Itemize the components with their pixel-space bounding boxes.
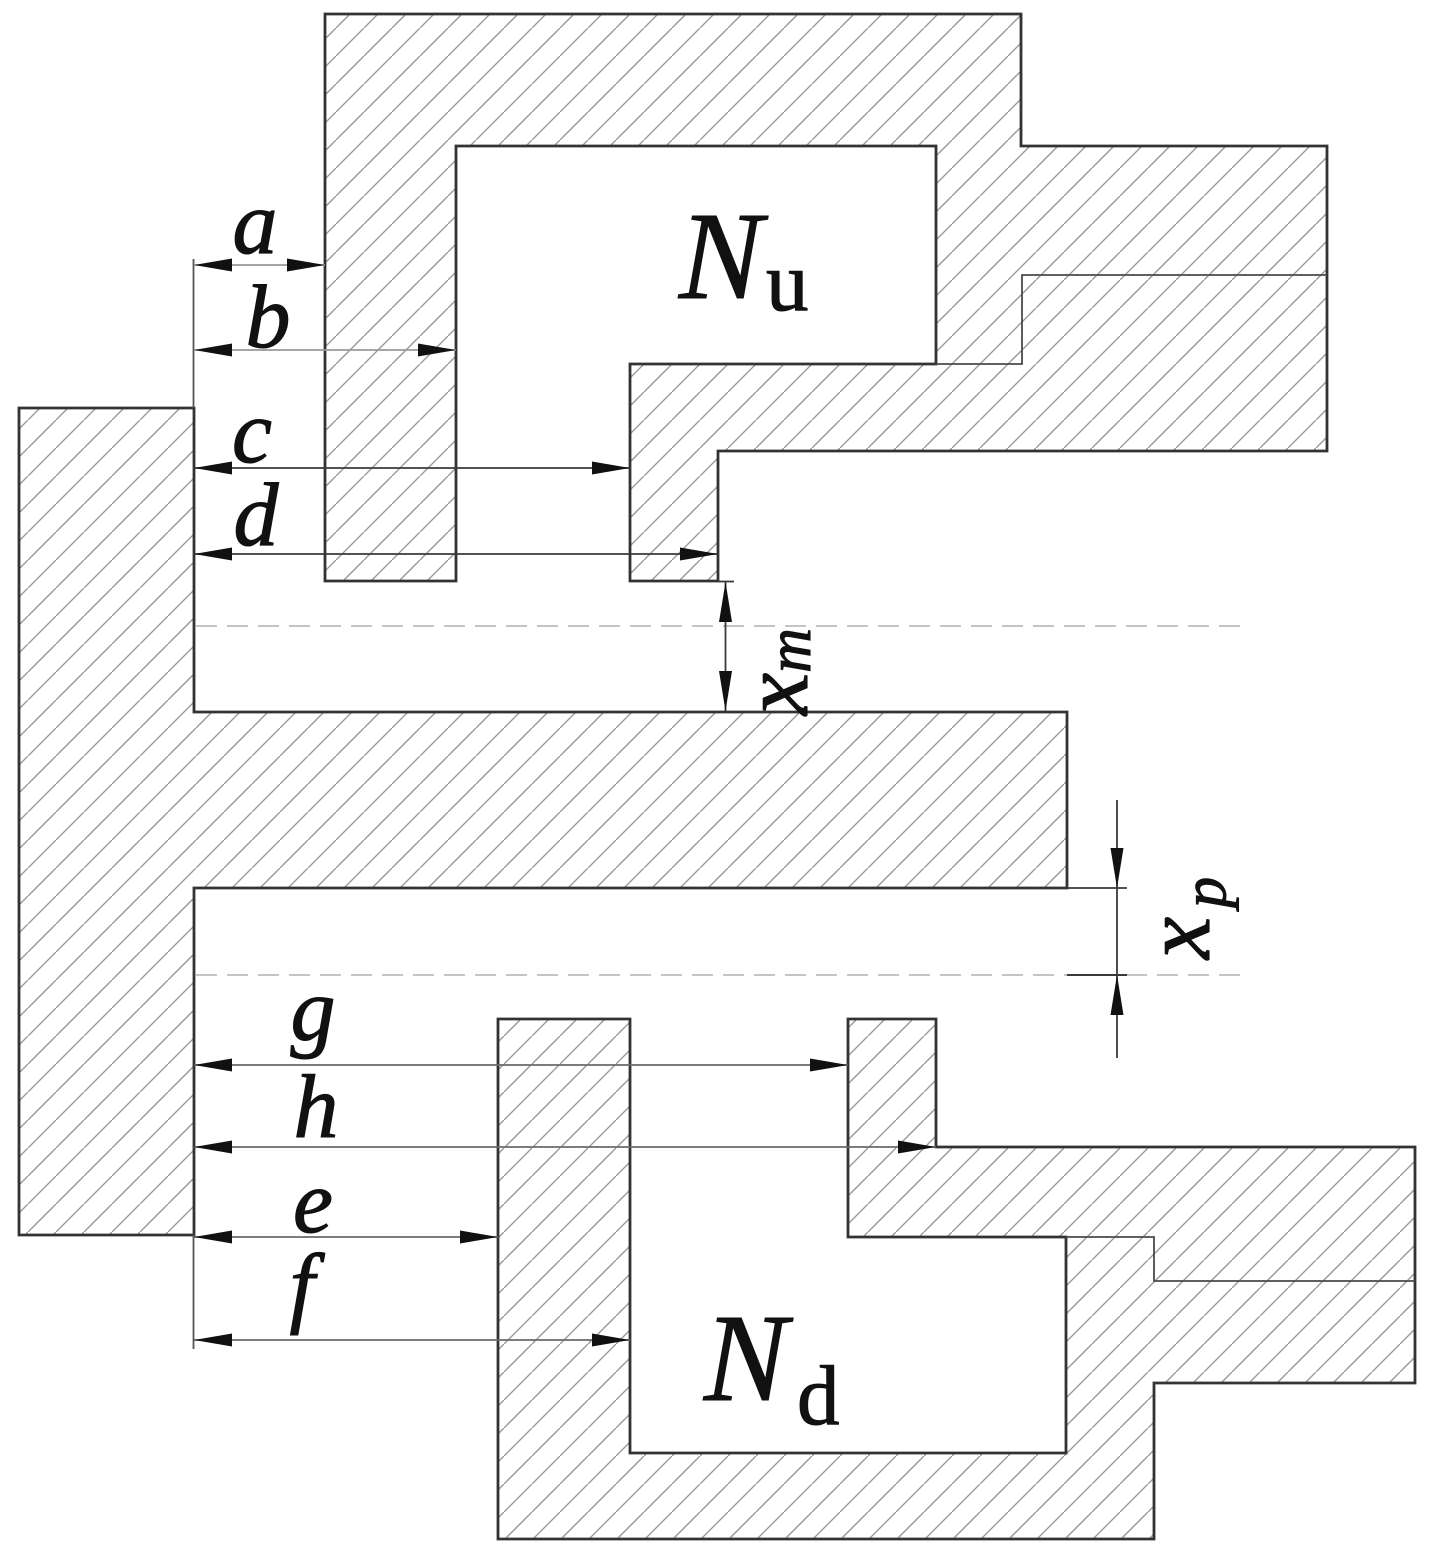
- label f: [289, 1237, 325, 1336]
- label d: [234, 466, 280, 565]
- dimension c: [194, 462, 630, 475]
- upper gear body (piece with Nu notch, union outline): [325, 14, 1327, 581]
- lower-left shaft piece (vertical bar + horizontal band): [19, 408, 1067, 1235]
- lower gear body (piece with Nd notch, union outline): [498, 1019, 1415, 1539]
- label a: [233, 174, 278, 273]
- dimension xp (vertical, band bottom to centerline): [1067, 800, 1127, 1058]
- dimension d: [194, 548, 718, 561]
- dimension a: [194, 259, 325, 272]
- svg-text:N: N: [703, 1290, 794, 1428]
- internal joint line upper (between gear and shaft flange): [936, 275, 1327, 364]
- label b: [246, 268, 291, 367]
- internal joint line lower (between gear and shaft flange): [1066, 1237, 1415, 1281]
- label xm (rotated): [722, 628, 828, 717]
- svg-text:a: a: [233, 174, 278, 273]
- dimension h: [194, 1141, 936, 1154]
- svg-text:u: u: [766, 235, 809, 329]
- label xp (rotated): [1124, 877, 1239, 961]
- label Nu (upper backlash): [678, 188, 809, 329]
- label h: [294, 1058, 339, 1157]
- label e: [293, 1153, 333, 1252]
- svg-text:d: d: [797, 1349, 840, 1443]
- label c: [232, 383, 272, 482]
- label g: [291, 961, 336, 1060]
- svg-text:b: b: [246, 268, 291, 367]
- svg-text:d: d: [234, 466, 280, 565]
- extension line lower-left: [193, 1235, 195, 1349]
- dimension b: [194, 344, 456, 357]
- dimension g: [194, 1059, 848, 1072]
- svg-text:h: h: [294, 1058, 339, 1157]
- dimension e: [194, 1231, 498, 1244]
- centerline lower (dashed axis): [196, 974, 1245, 976]
- dimension xm (vertical, tooth bottom to band top): [718, 582, 734, 712]
- label Nd (lower backlash): [703, 1290, 840, 1443]
- svg-text:N: N: [678, 188, 769, 326]
- extension line upper-left: [193, 259, 195, 408]
- dimension f: [194, 1334, 630, 1347]
- centerline upper (dashed axis): [196, 625, 1240, 627]
- svg-text:g: g: [291, 961, 336, 1060]
